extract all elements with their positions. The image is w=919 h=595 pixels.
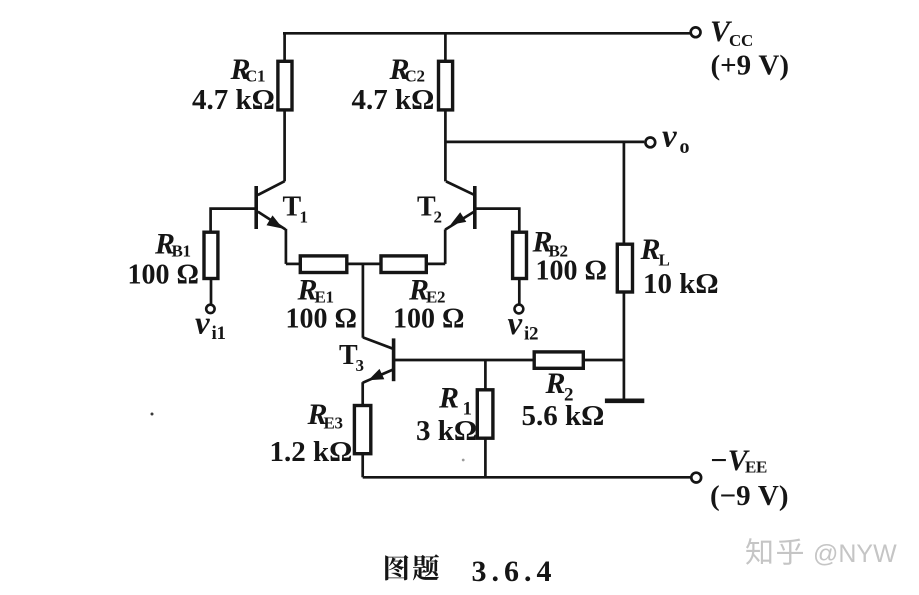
- svg-text:i1: i1: [212, 323, 226, 344]
- wire R1 top lead: [484, 360, 487, 391]
- wire RB1 to vi1: [210, 279, 213, 305]
- svg-text:100 Ω: 100 Ω: [536, 256, 607, 287]
- wire T3 emitter drop: [361, 382, 364, 406]
- svg-text:CC: CC: [729, 31, 753, 50]
- svg-text:B1: B1: [172, 242, 191, 261]
- wire emitters junction drop to T3: [362, 264, 365, 338]
- svg-text:R: R: [545, 367, 566, 400]
- watermark 知乎 @NYW: [746, 538, 897, 568]
- wire RE3 bottom lead: [361, 454, 364, 478]
- wire RE1 to RE2: [347, 263, 381, 266]
- label RE3 value 1.2 kOhm: [270, 398, 353, 468]
- transistor T1: [256, 181, 285, 229]
- svg-text:R: R: [438, 382, 459, 415]
- resistor RE1: [300, 256, 347, 273]
- terminal vo: [645, 138, 655, 148]
- label vi1: [195, 306, 226, 345]
- label vi2: [508, 306, 539, 345]
- scan speck: [462, 459, 465, 462]
- wire vo output: [445, 141, 644, 144]
- resistor RB2: [513, 232, 527, 278]
- wire RC1 top lead: [283, 33, 286, 61]
- wire RL bottom to ground: [623, 292, 626, 399]
- scan speck: [151, 413, 154, 416]
- transistor T2: [445, 181, 475, 229]
- wire T2 base to RB2: [475, 209, 519, 233]
- wire RE2 to T2 emitter: [426, 263, 445, 266]
- label RE1 value 100 Ohm: [286, 274, 357, 335]
- label RE2 value 100 Ohm: [393, 274, 464, 335]
- svg-text:o: o: [680, 136, 690, 158]
- svg-text:C2: C2: [405, 67, 425, 86]
- svg-text:v: v: [662, 119, 677, 155]
- terminal VCC: [691, 27, 701, 37]
- caption 图题 3.6.4: [385, 554, 556, 588]
- resistor R2: [534, 352, 583, 368]
- wire R1 bottom lead: [484, 438, 487, 477]
- svg-text:3: 3: [356, 356, 365, 375]
- wire emitter to RE1: [286, 263, 300, 266]
- svg-text:4.7 kΩ: 4.7 kΩ: [352, 84, 435, 116]
- resistor R1: [477, 390, 493, 438]
- resistor RL: [617, 244, 632, 292]
- wire bottom VEE rail: [363, 476, 691, 479]
- wire T3 base to R2: [394, 359, 536, 362]
- svg-text:2: 2: [434, 208, 443, 227]
- svg-text:v: v: [508, 306, 523, 342]
- terminal VEE: [691, 473, 701, 483]
- svg-text:4.7 kΩ: 4.7 kΩ: [192, 84, 275, 116]
- svg-text:10 kΩ: 10 kΩ: [643, 268, 719, 300]
- svg-text:E3: E3: [324, 414, 343, 433]
- wire RC2 bottom lead: [444, 110, 447, 182]
- svg-text:100 Ω: 100 Ω: [393, 304, 464, 335]
- svg-text:100 Ω: 100 Ω: [286, 304, 357, 335]
- resistor RC1: [278, 61, 292, 110]
- svg-text:@NYW: @NYW: [813, 540, 897, 568]
- resistor RE3: [354, 406, 370, 454]
- wire RB2 to vi2: [518, 279, 521, 305]
- terminal vi1: [206, 305, 214, 313]
- resistor RB1: [204, 232, 218, 278]
- ground: [605, 398, 644, 403]
- svg-text:3.6.4: 3.6.4: [472, 555, 557, 588]
- label T1: [283, 192, 309, 227]
- wire T1 emitter drop: [285, 229, 288, 264]
- svg-text:C1: C1: [245, 67, 265, 86]
- resistor RE2: [381, 256, 426, 273]
- label RC1 value 4.7 kOhm: [192, 53, 275, 116]
- label -VEE (-9 V): [710, 444, 789, 512]
- svg-text:1: 1: [300, 208, 309, 227]
- transistor T3: [363, 337, 394, 382]
- label R2 value 5.6 kOhm: [522, 367, 605, 432]
- svg-text:1.2 kΩ: 1.2 kΩ: [270, 436, 353, 468]
- label T3: [339, 340, 364, 375]
- label RC2 value 4.7 kOhm: [352, 53, 435, 116]
- label R1 value 3 kOhm: [416, 382, 477, 448]
- label T2: [417, 192, 442, 227]
- svg-text:R: R: [640, 233, 661, 266]
- label RB1 value 100 Ohm: [128, 228, 199, 291]
- wire top VCC rail: [283, 32, 691, 35]
- svg-text:L: L: [659, 251, 670, 270]
- svg-text:v: v: [195, 306, 210, 342]
- wire R2 to ground node: [583, 359, 624, 362]
- svg-text:(+9 V): (+9 V): [711, 50, 790, 82]
- svg-text:5.6 kΩ: 5.6 kΩ: [522, 400, 605, 432]
- resistor RC2: [439, 61, 453, 110]
- svg-text:EE: EE: [745, 458, 767, 477]
- terminal vi2: [515, 305, 524, 314]
- wire T2 emitter drop: [444, 229, 447, 264]
- wire RL top lead: [623, 142, 626, 245]
- svg-text:(−9 V): (−9 V): [710, 480, 789, 512]
- label vo: [662, 119, 690, 159]
- label RB2 value 100 Ohm: [532, 226, 607, 287]
- wire T1 base to RB1: [211, 209, 257, 233]
- label VCC (+9 V): [710, 15, 789, 82]
- wire RC1 bottom lead: [283, 110, 286, 182]
- wire RC2 top lead: [444, 33, 447, 61]
- svg-text:100 Ω: 100 Ω: [128, 260, 199, 291]
- svg-text:3 kΩ: 3 kΩ: [416, 415, 477, 447]
- label RL value 10 kOhm: [640, 233, 719, 300]
- svg-text:i2: i2: [524, 324, 538, 345]
